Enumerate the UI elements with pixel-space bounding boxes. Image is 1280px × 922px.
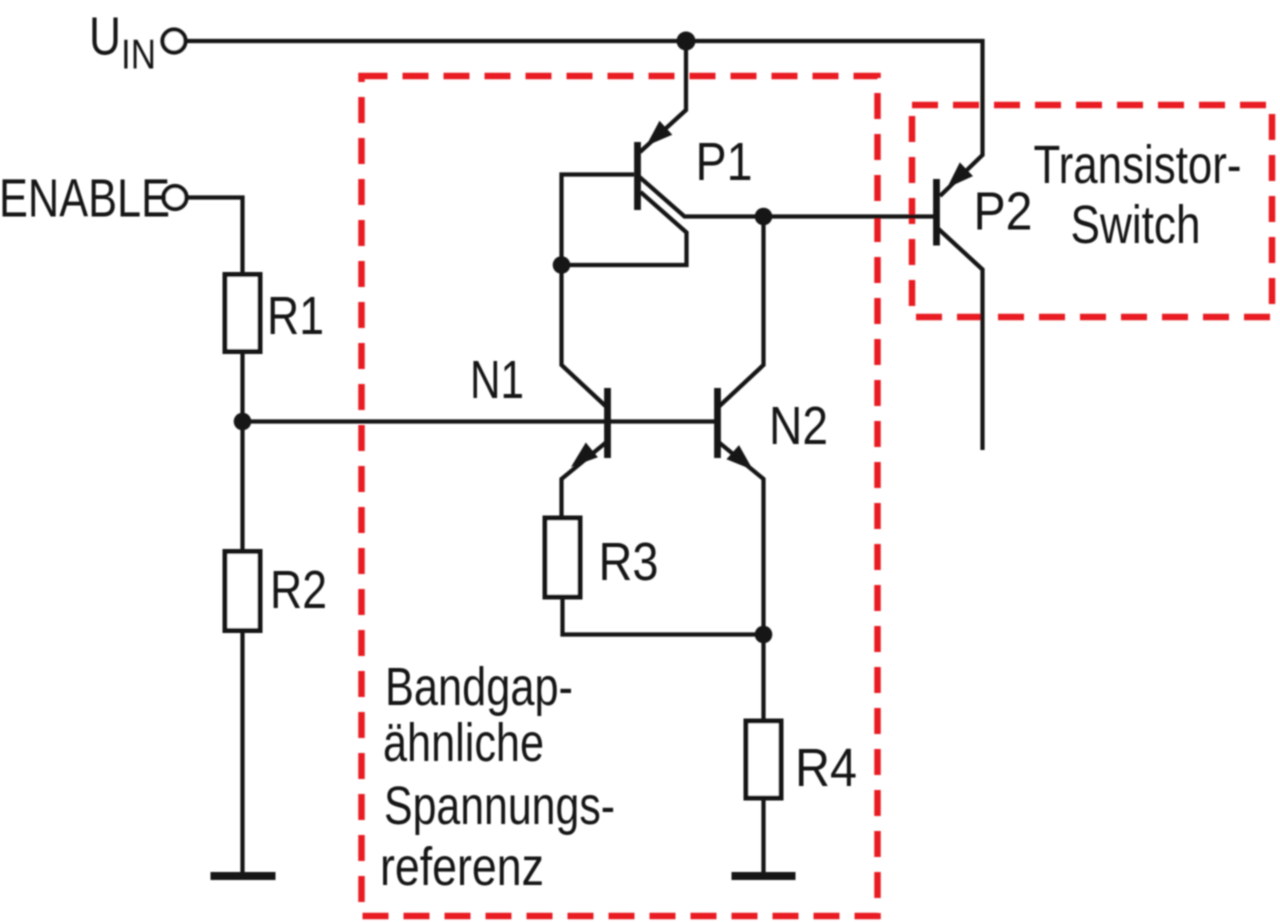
wire N2 collector lead (720, 217, 764, 407)
wire P1 collector to P2 base (640, 177, 934, 217)
wire P2 collector (open) (939, 229, 983, 450)
svg-text:R4: R4 (795, 738, 857, 798)
wire P1 base-collector tie loop (562, 175, 687, 266)
node junction at UIN / P1 emitter (677, 32, 696, 51)
ground left (211, 872, 276, 880)
node junction R3/R4/N2 emitter (755, 626, 773, 644)
svg-text:Spannungs-: Spannungs- (384, 776, 615, 836)
transistor P1 base bar (634, 142, 641, 210)
svg-text:Bandgap-: Bandgap- (385, 657, 573, 717)
node junction R1/R2/base rail (234, 413, 252, 431)
node junction P1 tie / N1 collector (553, 256, 571, 274)
transistor P2 base bar (933, 179, 940, 246)
wire N1 emitter lead to R3 (562, 440, 610, 518)
svg-text:U: U (89, 7, 121, 67)
ground right (732, 872, 796, 880)
resistor R3 (545, 518, 580, 597)
wire R1 bottom to node (240, 352, 244, 422)
wire N2 emitter lead down to R4 (716, 440, 764, 721)
wire node to R2 (240, 422, 244, 550)
svg-text:Switch: Switch (1071, 195, 1201, 255)
wire R2 to ground (240, 631, 244, 872)
transistor N1 base bar (604, 388, 611, 458)
wire N1 collector lead (562, 265, 606, 406)
terminal ENABLE circle (164, 186, 187, 209)
wire UIN to top-right corner and P2 emitter (186, 41, 983, 196)
resistor R2 (225, 552, 260, 631)
box Bandgap-aehnliche Spannungsreferenz (red dashed) (362, 76, 878, 916)
transistor N2 base bar (714, 388, 721, 458)
svg-text:R3: R3 (599, 532, 659, 592)
arrowhead P1 emitter (PNP) (646, 121, 672, 146)
svg-text:Transistor-: Transistor- (1034, 135, 1242, 195)
terminal U_IN circle (163, 30, 186, 53)
wire ENABLE to R1 (188, 198, 243, 273)
wire R3 bottom to node (563, 597, 764, 635)
svg-text:referenz: referenz (380, 837, 544, 897)
svg-text:ähnliche: ähnliche (383, 713, 544, 773)
node junction P1 collector / N2 collector / P2 base (755, 208, 773, 226)
svg-text:P1: P1 (696, 132, 753, 192)
svg-text:R2: R2 (270, 560, 327, 620)
svg-text:N1: N1 (470, 350, 524, 410)
arrowhead P2 emitter (PNP) (947, 162, 973, 188)
wire R4 to ground (761, 798, 765, 872)
svg-text:ENABLE: ENABLE (0, 169, 170, 229)
resistor R4 (746, 721, 781, 798)
svg-text:N2: N2 (769, 396, 828, 456)
svg-text:IN: IN (121, 31, 156, 78)
resistor R1 (225, 275, 260, 352)
svg-text:P2: P2 (974, 182, 1033, 242)
wire P1 emitter lead (640, 41, 686, 152)
arrowhead N2 emitter (NPN) (726, 445, 753, 470)
box Transistor-Switch (red dashed) (912, 105, 1272, 317)
wire base rail node N1-N2 (243, 419, 716, 423)
svg-text:R1: R1 (267, 286, 324, 346)
arrowhead N1 emitter (NPN) (571, 443, 598, 468)
